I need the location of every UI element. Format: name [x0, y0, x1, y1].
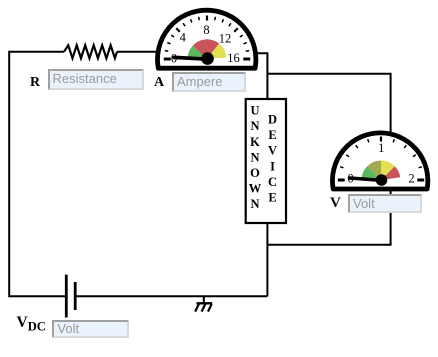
voltmeter minor ticks: [340, 139, 422, 168]
ammeter hub: [201, 52, 214, 65]
svg-text:O: O: [250, 166, 260, 180]
ammeter U1: [158, 10, 256, 68]
input Resistance: [48, 69, 144, 90]
ground bar: [197, 302, 213, 304]
voltmeter end ticks: [338, 179, 424, 182]
ammeter end ticks: [164, 58, 250, 61]
svg-text:D: D: [268, 113, 277, 127]
svg-text:2: 2: [408, 172, 414, 186]
svg-text:E: E: [268, 128, 276, 142]
ammeter yellow zone: [207, 44, 226, 59]
ammeter scale labels 0 4 8 12 16: [171, 23, 240, 66]
ammeter minor ticks: [165, 17, 249, 51]
svg-text:K: K: [250, 135, 260, 149]
svg-text:12: 12: [219, 31, 232, 45]
wire: ammeter to node, down to unknown device top: [257, 53, 268, 99]
svg-text:N: N: [250, 150, 259, 164]
svg-text:16: 16: [227, 51, 240, 65]
wire: top-left loop (resistor to battery via left side): [9, 52, 65, 296]
voltmeter red zone: [381, 166, 400, 180]
svg-text:E: E: [268, 191, 276, 205]
svg-text:I: I: [270, 159, 275, 173]
wire: resistor to ammeter: [117, 51, 157, 53]
input Ampere: [172, 72, 246, 92]
input Volt (voltmeter): [348, 194, 422, 214]
ground stub: [203, 296, 205, 303]
voltmeter body: [332, 133, 427, 189]
label V: [330, 195, 341, 212]
voltmeter U2: [332, 133, 427, 189]
svg-text:U: U: [250, 104, 259, 118]
wire: voltmeter bottom down and left to device branch: [267, 191, 390, 245]
ammeter green zone: [188, 46, 207, 59]
svg-text:C: C: [268, 175, 277, 189]
battery VDC long plate: [65, 275, 68, 318]
ground hatch lines: [195, 304, 211, 311]
svg-text:W: W: [249, 182, 262, 196]
input Volt (VDC): [52, 320, 128, 339]
wire: unknown device bottom to bottom rail: [266, 223, 268, 296]
label A: [154, 75, 164, 91]
svg-text:V: V: [268, 144, 277, 158]
voltmeter major ticks: [380, 137, 382, 142]
wire: bottom rail right of battery: [76, 295, 267, 297]
voltmeter scale labels 0 1 2: [347, 141, 414, 186]
svg-text:4: 4: [180, 31, 187, 45]
label R: [30, 75, 40, 91]
ammeter body: [158, 10, 256, 68]
voltmeter yellow zone: [381, 161, 395, 181]
voltmeter needle: [350, 178, 382, 180]
resistor R: [64, 45, 117, 58]
voltmeter hub: [376, 174, 388, 186]
label VDC: [17, 314, 46, 335]
wire: node to voltmeter top: [267, 74, 390, 132]
battery VDC short plate: [74, 282, 77, 310]
svg-text:1: 1: [378, 141, 384, 155]
voltmeter olive zone: [367, 161, 381, 181]
ammeter major ticks: [176, 16, 238, 32]
unknown device box: [246, 99, 286, 223]
svg-text:8: 8: [203, 23, 209, 37]
voltmeter green zone: [362, 166, 382, 180]
svg-text:N: N: [250, 119, 259, 133]
ammeter needle: [174, 57, 207, 59]
unknown device text DEVICE: [268, 113, 277, 205]
unknown device text UNKNOWN: [249, 104, 262, 212]
svg-text:N: N: [250, 197, 259, 211]
ammeter red zone: [193, 39, 219, 58]
